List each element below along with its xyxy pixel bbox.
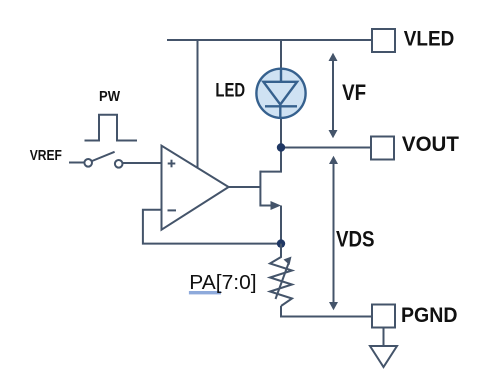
ground: [370, 346, 397, 367]
wire LED anode lead: [280, 40, 282, 82]
arrow VF: [329, 53, 338, 138]
node source junction: [277, 239, 285, 247]
wire PGND ground stub: [383, 328, 385, 346]
arrow VDS: [329, 156, 338, 310]
terminal VOUT: [371, 137, 394, 160]
svg-text:LED: LED: [215, 81, 245, 102]
wire op-amp supply drop: [197, 40, 199, 168]
svg-text:VLED: VLED: [404, 28, 455, 51]
wire switch input lead: [69, 162, 85, 164]
LED D1: [256, 69, 305, 118]
label PA[7:0]: [189, 291, 221, 294]
svg-text:VREF: VREF: [30, 147, 62, 164]
transistor Q1: [260, 148, 281, 244]
svg-text:PW: PW: [99, 88, 121, 105]
node drain junction: [277, 143, 285, 151]
wire feedback loop: [143, 210, 281, 244]
op-amp U1: [162, 146, 229, 230]
wire op-amp output to gate: [229, 186, 261, 188]
wire VOUT rail: [281, 147, 371, 149]
resistor PA: [270, 244, 292, 306]
wire op-amp noninverting input: [123, 162, 162, 164]
svg-text:VF: VF: [342, 80, 366, 105]
terminal PGND: [372, 305, 395, 328]
wire LED cathode lead: [280, 106, 282, 148]
switch S1: [84, 152, 122, 168]
svg-text:PGND: PGND: [401, 304, 458, 327]
wire top rail: [167, 39, 372, 41]
svg-text:VOUT: VOUT: [402, 133, 459, 156]
svg-text:VDS: VDS: [336, 227, 375, 252]
svg-text:PA[7:0]: PA[7:0]: [189, 272, 256, 294]
wire resistor to PGND rail: [281, 306, 372, 317]
pulse PW waveform: [85, 115, 138, 141]
terminal VLED: [372, 29, 395, 52]
